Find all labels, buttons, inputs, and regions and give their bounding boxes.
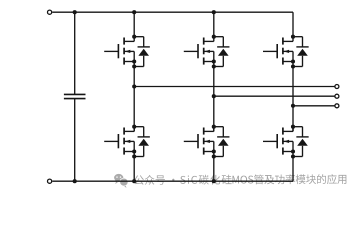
- diode D4 (body diode of Q4): [214, 127, 230, 157]
- Q5 source lead wire: [283, 61, 293, 63]
- wire phase U output line: [134, 86, 335, 88]
- Q4 drain lead wire: [204, 130, 214, 132]
- junction Q5 source node: [291, 59, 295, 63]
- wire leg 3: Q6 source to bottom rail: [292, 141, 294, 181]
- junction Q5 drain node: [291, 35, 295, 39]
- transistor Q6 (SiC power MOSFET): [263, 125, 309, 159]
- wire leg 3: top rail to Q5 drain: [292, 12, 294, 37]
- junction node U (phase output): [132, 84, 136, 88]
- node DC- : bottom rail: [52, 180, 293, 182]
- junction Q1 source node: [132, 59, 136, 63]
- junction Q4 source node: [212, 149, 216, 153]
- Q1 source lead wire: [124, 61, 134, 63]
- Q4 gate lead wire: [184, 140, 198, 142]
- transistor Q3 (SiC power MOSFET): [184, 35, 230, 69]
- diode D6 (body diode of Q6): [293, 127, 309, 157]
- terminal phase W output: [335, 104, 339, 108]
- junction Q2 source/diode anode node: [132, 154, 136, 158]
- diode D1 (body diode of Q1): [134, 37, 150, 67]
- Q4 channel bars (drain/body/source): [203, 128, 205, 135]
- Q2 source lead wire: [124, 151, 134, 153]
- Q2 channel bars (drain/body/source): [123, 128, 125, 135]
- wire leg 2: Q3 source down to Q4 drain: [213, 51, 215, 131]
- terminal DC+ input: [48, 10, 52, 14]
- Q6 drain lead wire: [283, 130, 293, 132]
- Q3 gate lead wire: [184, 50, 198, 52]
- Q2 body lead wire with arrow: [124, 140, 134, 142]
- Q1 body lead wire with arrow: [124, 50, 134, 52]
- diode D5 (body diode of Q5): [293, 37, 309, 67]
- Q6 channel bars (drain/body/source): [282, 128, 284, 135]
- Q1 gate lead wire: [104, 50, 118, 52]
- transistor Q2 (SiC power MOSFET): [104, 125, 150, 159]
- junction Q4 source/diode anode node: [212, 154, 216, 158]
- Q4 gate plate: [197, 134, 199, 148]
- junction leg 2 on bottom rail: [212, 179, 216, 183]
- junction Q5 source/diode anode node: [291, 64, 295, 68]
- node DC+ : top rail: [52, 11, 293, 13]
- junction Q2 drain node: [132, 125, 136, 129]
- Q5 drain lead wire: [283, 40, 293, 42]
- terminal phase V output: [335, 94, 339, 98]
- wire C1 bottom lead: [74, 99, 76, 182]
- wire leg 1: top rail to Q1 drain: [133, 12, 135, 37]
- junction Q3 drain node: [212, 35, 216, 39]
- junction Q2 source node: [132, 149, 136, 153]
- Q2 gate plate: [117, 134, 119, 148]
- terminal phase U output: [335, 85, 339, 89]
- watermark text 公众号 · SiC碳化硅MOS管及功率模块的应用: [134, 174, 346, 185]
- Q3 gate plate: [197, 44, 199, 58]
- junction Q6 drain node: [291, 125, 295, 129]
- junction Q6 source node: [291, 149, 295, 153]
- junction Q3 source node: [212, 59, 216, 63]
- transistor Q4 (SiC power MOSFET): [184, 125, 230, 159]
- junction Q3 source/diode anode node: [212, 64, 216, 68]
- junction node V (phase output): [212, 94, 216, 98]
- transistor Q1 (SiC power MOSFET): [104, 35, 150, 69]
- Q5 gate plate: [276, 44, 278, 58]
- Q4 source lead wire: [204, 151, 214, 153]
- diode D2 (body diode of Q2): [134, 127, 150, 157]
- Q5 channel bars (drain/body/source): [282, 38, 284, 45]
- junction Q4 drain node: [212, 125, 216, 129]
- Q1 drain lead wire: [124, 40, 134, 42]
- Q6 source lead wire: [283, 151, 293, 153]
- Q5 body lead wire with arrow: [283, 50, 293, 52]
- C1 plates: [64, 93, 86, 95]
- Q4 body lead wire with arrow: [204, 140, 214, 142]
- junction leg 2 on top rail: [212, 10, 216, 14]
- junction leg 1 on top rail: [132, 10, 136, 14]
- wire C1 top lead: [74, 12, 76, 94]
- Q3 body lead wire with arrow: [204, 50, 214, 52]
- Q2 gate lead wire: [104, 140, 118, 142]
- terminal DC- input: [48, 179, 52, 183]
- Q1 channel bars (drain/body/source): [123, 38, 125, 45]
- transistor Q5 (SiC power MOSFET): [263, 35, 309, 69]
- wire leg 1: Q1 source down to Q2 drain: [133, 51, 135, 131]
- Q2 drain lead wire: [124, 130, 134, 132]
- wire leg 2: Q4 source to bottom rail: [213, 141, 215, 181]
- watermark logo (WeChat official account): [114, 174, 128, 188]
- junction C1 on top rail: [73, 10, 77, 14]
- junction C1 on bottom rail: [73, 179, 77, 183]
- Q1 gate plate: [117, 44, 119, 58]
- junction node W (phase output): [291, 104, 295, 108]
- capacitor C1 (DC link): [64, 10, 86, 183]
- Q3 drain lead wire: [204, 40, 214, 42]
- wire phase W output line: [293, 105, 335, 107]
- wire leg 3: Q5 source down to Q6 drain: [292, 51, 294, 131]
- junction Q1 drain node: [132, 35, 136, 39]
- junction Q6 source/diode anode node: [291, 154, 295, 158]
- Q6 gate lead wire: [263, 140, 277, 142]
- junction leg 1 on bottom rail: [132, 179, 136, 183]
- Q5 gate lead wire: [263, 50, 277, 52]
- Q6 gate plate: [276, 134, 278, 148]
- wire phase V output line: [214, 95, 335, 97]
- junction Q1 source/diode anode node: [132, 64, 136, 68]
- Q6 body lead wire with arrow: [283, 140, 293, 142]
- diode D3 (body diode of Q3): [214, 37, 230, 67]
- wire leg 2: top rail to Q3 drain: [213, 12, 215, 37]
- wire leg 1: Q2 source to bottom rail: [133, 141, 135, 181]
- Q3 channel bars (drain/body/source): [203, 38, 205, 45]
- Q3 source lead wire: [204, 61, 214, 63]
